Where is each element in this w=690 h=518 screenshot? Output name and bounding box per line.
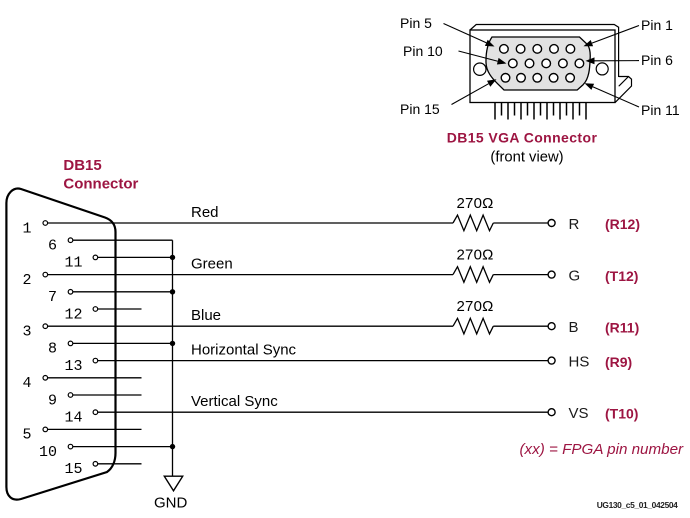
svg-text:GND: GND bbox=[154, 495, 188, 512]
svg-text:Pin 5: Pin 5 bbox=[400, 15, 432, 31]
svg-text:B: B bbox=[569, 319, 579, 336]
svg-text:6: 6 bbox=[48, 238, 57, 255]
svg-text:G: G bbox=[569, 267, 581, 284]
svg-text:(front view): (front view) bbox=[490, 150, 563, 166]
svg-text:Pin 1: Pin 1 bbox=[641, 17, 673, 33]
svg-text:(R11): (R11) bbox=[605, 319, 639, 335]
svg-text:2: 2 bbox=[22, 272, 31, 289]
svg-text:(T10): (T10) bbox=[605, 405, 638, 421]
svg-text:Connector: Connector bbox=[63, 176, 138, 193]
svg-text:UG130_c5_01_042504: UG130_c5_01_042504 bbox=[597, 500, 678, 510]
svg-text:VS: VS bbox=[569, 405, 589, 422]
svg-text:4: 4 bbox=[22, 375, 31, 392]
svg-text:270Ω: 270Ω bbox=[457, 195, 494, 212]
svg-text:8: 8 bbox=[48, 341, 57, 358]
svg-text:11: 11 bbox=[64, 255, 82, 272]
svg-text:Pin 15: Pin 15 bbox=[400, 101, 440, 117]
svg-text:DB15: DB15 bbox=[63, 157, 101, 174]
svg-text:270Ω: 270Ω bbox=[457, 298, 494, 315]
svg-text:1: 1 bbox=[22, 220, 31, 237]
svg-text:12: 12 bbox=[64, 306, 82, 323]
svg-text:9: 9 bbox=[48, 392, 57, 409]
svg-text:Blue: Blue bbox=[191, 307, 221, 324]
svg-text:(T12): (T12) bbox=[605, 268, 638, 284]
svg-text:14: 14 bbox=[64, 410, 82, 427]
svg-text:(R9): (R9) bbox=[605, 354, 632, 370]
svg-text:15: 15 bbox=[64, 461, 82, 478]
svg-text:Red: Red bbox=[191, 204, 219, 221]
svg-text:10: 10 bbox=[39, 444, 57, 461]
svg-text:5: 5 bbox=[22, 427, 31, 444]
svg-text:(xx) = FPGA pin number: (xx) = FPGA pin number bbox=[520, 441, 685, 458]
svg-text:Pin 10: Pin 10 bbox=[403, 43, 443, 59]
svg-text:3: 3 bbox=[22, 324, 31, 341]
svg-text:Vertical Sync: Vertical Sync bbox=[191, 393, 278, 410]
svg-text:Green: Green bbox=[191, 256, 233, 273]
svg-text:Horizontal Sync: Horizontal Sync bbox=[191, 342, 297, 359]
svg-text:7: 7 bbox=[48, 289, 57, 306]
svg-text:R: R bbox=[569, 216, 580, 233]
svg-text:270Ω: 270Ω bbox=[457, 247, 494, 264]
svg-text:HS: HS bbox=[569, 353, 590, 370]
svg-text:DB15 VGA Connector: DB15 VGA Connector bbox=[447, 129, 598, 145]
svg-text:Pin 6: Pin 6 bbox=[641, 52, 673, 68]
svg-text:(R12): (R12) bbox=[605, 216, 640, 232]
svg-text:13: 13 bbox=[64, 358, 82, 375]
svg-text:Pin 11: Pin 11 bbox=[641, 102, 680, 118]
